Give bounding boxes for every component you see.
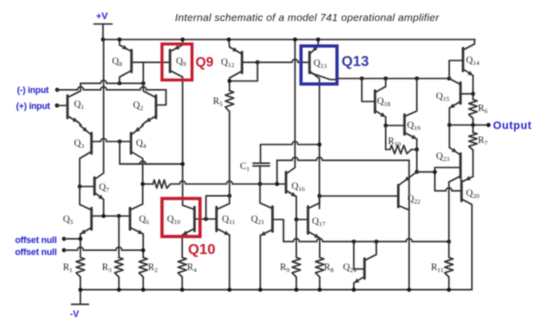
transistor Q21 [271,207,274,232]
wire Q6 emitter to R2 [142,234,144,258]
node Q12 collector junction [228,79,232,83]
wire Q3/Q4 bases down to node B [120,142,183,165]
node B junction [181,162,185,166]
rail junction Q22 [407,288,411,292]
rail junction R1 [78,288,82,292]
wire Q18 emitter down [385,117,387,126]
wire Q23 base [435,168,461,191]
wire to Q16 base [171,181,287,184]
node Q14 base junction [447,77,451,81]
node Q17 base junction [294,218,298,222]
wire Q18 base [362,79,375,102]
node Q18 base junction [360,77,364,81]
wire Q3/Q4 bases [92,139,132,142]
node offset null 2 junction [141,248,145,252]
wire Q12 base tie [242,61,258,63]
resistor R9 [292,258,300,278]
wire Q19 emitter down [416,139,418,150]
wire Q11 base [206,218,217,220]
node R10/Q19 junction [415,148,419,152]
wire Q1 emitter to Q3 emitter [78,122,81,126]
svg-text:Q10: Q10 [188,242,215,258]
wire Q24 base [354,242,365,269]
svg-text:(-) input: (-) input [17,85,49,95]
wire C1 bottom to Q16 base [259,166,261,184]
node offset null 1 junction [78,237,82,241]
wire Q10 emitter to R4 [181,235,183,258]
wire R10 left leg [385,126,387,150]
node B wire [120,161,183,164]
wire Q13 collector2 bias line [337,78,449,80]
transistor Q23 [459,154,462,179]
+V terminal [102,24,104,40]
rail junction R11 [447,288,451,292]
highlight box Q13 [301,46,337,84]
wire R10 right [412,149,417,151]
wire Q14 base [449,61,463,79]
wire Q11 base-collector tie [206,196,230,219]
wire Q22 collector line to rail [408,210,410,290]
svg-text:offset null: offset null [15,235,57,245]
wire Q7 base to Q3 collector [80,186,95,188]
node Q22 base junction [317,194,321,198]
wire Q21 emitter to rail [259,236,261,290]
wire Q16 emitter to R9 [295,220,297,258]
wire offset null 2 [64,247,143,250]
node Q24 collector junction [374,240,378,244]
transistor Q2 [155,96,158,119]
wire Q8/Q9 base to node A [142,62,144,83]
node Q22 emitter net junction [433,170,437,174]
resistor R11 [445,258,453,278]
transistor Q5 [90,208,93,230]
node C1/Q13 junction [317,143,321,147]
wire Q19 emitter node down [416,150,418,172]
wire Q23 emitter to output node [448,125,450,148]
wire Q4/Q6 collector node [143,183,153,185]
rail junction R2 [141,288,145,292]
transistor Q14 [462,48,465,71]
transistor Q13 (dual collector) [308,52,311,73]
Q16 collector rail junction [293,38,297,42]
node Q24 base junction [352,240,356,244]
resistor R7 [469,133,477,151]
wire Q19 base [386,125,405,127]
transistor Q22 [397,185,400,207]
wire Q10 base [195,218,207,220]
node Q7 emitter junction [102,214,106,218]
node Q12 base tap [256,60,260,64]
+V power rail [103,39,475,41]
transistor Q17 [307,207,310,234]
wire Q24 emitter to rail [353,283,355,290]
node Q18 collector junction [384,77,388,81]
wire Q13 collector1 down to Q17 [318,145,320,209]
-V power rail [80,289,472,291]
transistor Q20 [460,181,463,202]
wire C1 top to Q13/Q17 node [260,145,262,164]
resistor R10 [390,145,412,153]
node Q22 emitter junction [415,170,419,174]
rail junction R9 [294,288,298,292]
node R11 junction [447,240,451,244]
wire Q15 base [461,93,474,95]
svg-text:Output: Output [493,120,532,132]
wire Q14 emitter to R6 [472,76,474,100]
+V rail junction [101,38,105,42]
highlight box Q10 [162,199,200,237]
node Q19 collector junction [415,77,419,81]
Q12 emitter rail junction [227,38,231,42]
wire node B down to Q10 collector [182,164,184,205]
transistor Q8 [130,50,133,72]
wire base rail to R3 [118,216,120,258]
transistor Q19 [403,115,406,135]
node Q19 base junction [384,124,388,128]
capacitor C1 [253,162,270,164]
output terminal [486,123,490,127]
resistor R5 [225,91,233,112]
node Q7 base junction [78,185,82,189]
node output/R6R7 junction [471,123,475,127]
wire Q16 emitter down [295,197,297,220]
node Q11 tie junction [228,194,232,198]
output wire [449,124,488,126]
svg-text:+V: +V [96,11,109,22]
wire Q5/Q6 base rail [92,215,131,217]
rail junction Q24 [352,288,356,292]
wire Q20 base [435,188,462,191]
transistor Q12 [241,52,244,73]
transistor Q24 [363,259,366,279]
wire Q2 emitter to Q4 emitter [142,122,146,126]
wire Q4 collector to Q6 collector [142,184,144,204]
svg-text:(+) input: (+) input [16,101,50,111]
rail junction Q11 [228,288,232,292]
wire Q7 emitter down [103,200,105,217]
transistor Q11 [215,207,218,231]
svg-text:offset null: offset null [15,247,57,257]
node R3 junction [117,214,121,218]
transistor Q7 [93,178,96,195]
transistor Q3 [90,133,93,154]
wire Q15 emitter to output [448,108,450,125]
resistor R6 [469,100,477,119]
Q13 emitter rail junction [316,38,320,42]
wire +V rail down to Q7 collector [103,40,105,174]
svg-text:Q13: Q13 [342,54,369,70]
node Q4/Q6 junction [141,182,145,186]
wire riser to line2 [276,160,278,184]
rail junction Q21 [258,288,262,292]
node A junction diode tie [141,81,145,85]
rail junction R8 [318,288,322,292]
wire Q16 base node to Q22 collector [277,157,409,160]
wire Q11 collector to R5 [229,112,231,204]
resistor R8 [316,258,324,278]
resistor R2 [139,258,147,278]
transistor Q4 [130,133,133,154]
node A wire [81,80,144,83]
wire Q5 emitter to R1 [79,234,81,258]
wire Q22 emitter node right [417,171,433,173]
wire Q21 base to Q24/R11 net [284,239,449,242]
svg-text:Internal schematic of a model: Internal schematic of a model 741 operat… [175,13,440,24]
wire Q9 collector to node B [182,83,184,164]
Q9 emitter rail junction [181,38,185,42]
wire Q17 collector up [318,196,320,203]
wire (+) input to Q1 base [57,105,68,107]
wire Q17 base [296,219,308,221]
transistor Q10 [193,207,196,231]
resistor R4 [178,258,186,278]
wire (-) input to Q2 base [57,87,166,90]
rail junction R4 [180,288,184,292]
wire Q22 base from Q17 collector [319,195,398,197]
node output/Q15 junction [447,123,451,127]
svg-text:Q9: Q9 [196,55,214,70]
offset null 2 terminal [62,248,66,252]
svg-text:-V: -V [70,309,79,319]
wire Q11 emitter to rail [229,235,231,290]
wire Q21 base [273,220,284,242]
wire R7 to Q20 emitter [472,150,474,177]
transistor Q9 [169,50,172,72]
resistor R1 [76,258,84,278]
(-) input terminal [55,88,59,92]
wire offset null 1 [64,238,80,240]
(+) input terminal [55,103,59,107]
highlight box Q9 [162,44,192,80]
node line2 riser junction [275,182,279,186]
rail junction R3 [117,288,121,292]
node A junction Q8 collector [118,81,122,85]
Q8 emitter rail junction [118,38,122,42]
resistor R3 [115,258,123,278]
wire Q8 base to Q9 base [132,61,171,63]
node C1 bottom junction [258,182,262,186]
transistor Q6 [129,208,132,230]
wire Q17 emitter to R8 [319,238,321,258]
transistor Q15 [459,83,462,104]
wire Q12 base-collector tie [230,62,258,81]
transistor Q16 [285,172,288,193]
wire Q12 base to Q13 base [258,59,310,62]
offset null 1 terminal [62,237,66,241]
resistor second stage coupling [153,180,171,188]
transistor Q18 [374,91,377,113]
node Q15 base junction [471,92,475,96]
wire Q5 collector up [79,187,81,205]
node Q3/Q4 base junction [118,140,122,144]
transistor Q1 [66,96,69,119]
node Q10/Q11 base junction [204,217,208,221]
-V terminal [79,290,81,305]
